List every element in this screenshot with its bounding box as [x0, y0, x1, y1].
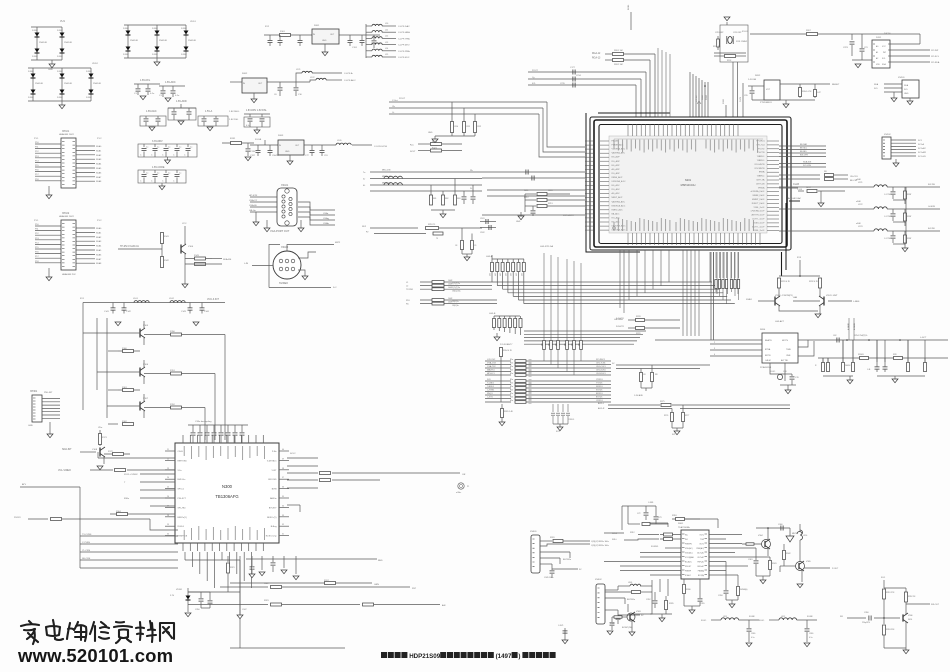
svg-text:5v: 5v [363, 179, 366, 181]
svg-text:R2m: R2m [510, 393, 514, 395]
svg-text:C142: C142 [126, 311, 132, 313]
differential pair V201/V202 [746, 257, 860, 318]
connector XS201 [874, 77, 919, 105]
svg-text:R30x: R30x [124, 498, 130, 500]
svg-text:VGAb: VGAb [323, 222, 330, 225]
svg-text:C-LPF-HRA: C-LPF-HRA [398, 31, 410, 34]
svg-text:R11: R11 [467, 126, 471, 128]
svg-text:L122: L122 [310, 77, 315, 79]
svg-text:R336: R336 [686, 589, 691, 591]
svg-text:R323: R323 [264, 600, 269, 602]
svg-text:C-LPF-PRA: C-LPF-PRA [398, 50, 410, 53]
svg-text:BNDRDA_ADC: BNDRDA_ADC [612, 204, 626, 207]
svg-text:GND: GND [428, 132, 433, 134]
svg-text:Y-IXT: Y-IXT [271, 470, 277, 472]
svg-text:R2m: R2m [510, 379, 514, 381]
svg-text:D1N4: D1N4 [57, 71, 63, 73]
svg-text:R218 75: R218 75 [428, 224, 435, 226]
svg-text:R254 254(R)%: R254 254(R)% [854, 335, 867, 337]
svg-text:SDA2: SDA2 [96, 236, 102, 239]
svg-text:RNQ1: RNQ1 [487, 393, 493, 395]
caption title text [381, 652, 556, 660]
svg-text:RXMPcnB: RXMPcnB [178, 536, 188, 538]
svg-text:SC1: SC1 [918, 140, 923, 142]
svg-text:LHF-B: LHF-B [489, 313, 496, 315]
svg-text:N103: N103 [278, 135, 284, 137]
svg-text:AG_ADC: AG_ADC [612, 192, 621, 195]
LC filter L311 [701, 616, 759, 647]
svg-text:4K7: 4K7 [579, 343, 581, 346]
svg-text:BLPDFln: BLPDFln [627, 599, 635, 601]
svg-text:3V: 3V [579, 569, 582, 571]
IC N201 top pin stubs [628, 124, 738, 136]
svg-text:SD2: SD2 [362, 226, 367, 228]
pull-up resistors on bus [542, 253, 583, 375]
svg-text:C-LPF-A: C-LPF-A [344, 72, 353, 75]
svg-text:Cr: Cr [392, 111, 395, 114]
svg-text:SE-CRS: SE-CRS [82, 558, 91, 560]
svg-text:1N4148: 1N4148 [188, 40, 196, 42]
svg-text:RDUST: RDUST [685, 566, 692, 568]
svg-text:BRTN: BRTN [765, 355, 771, 357]
svg-text:XS202: XS202 [884, 134, 891, 136]
svg-text:SDA-IDN: SDA-IDN [803, 161, 812, 164]
svg-text:32: 32 [282, 524, 284, 526]
svg-text:P1.2: P1.2 [97, 220, 102, 222]
svg-text:VCC: VCC [182, 223, 187, 225]
svg-text:PBREF: PBREF [685, 571, 692, 573]
wire bundle above IC left [690, 72, 702, 117]
svg-text:SCLT: SCLT [410, 151, 416, 153]
svg-text:C(R)(J)YFFRe 100u: C(R)(J)YFFRe 100u [591, 545, 609, 547]
inductor bank L110-L115 [366, 23, 410, 59]
svg-text:L222: L222 [858, 204, 863, 206]
svg-text:C177: C177 [570, 67, 576, 69]
voltage regulator N102 [230, 69, 356, 103]
svg-text:C(R)(J)YFFRe 100u: C(R)(J)YFFRe 100u [591, 541, 609, 543]
svg-text:L101: L101 [133, 298, 139, 300]
audio IC output RC network [646, 535, 770, 622]
svg-text:BF-RA1: BF-RA1 [800, 143, 808, 146]
svg-text:OUTa: OUTa [699, 535, 704, 537]
svg-text:VDD(AC): VDD(AC) [685, 552, 693, 555]
svg-text:NBDP_ADP: NBDP_ADP [612, 196, 623, 199]
svg-text:39: 39 [282, 458, 284, 460]
svg-text:TOW: TOW [700, 539, 704, 541]
svg-text:CLKM: CLKM [740, 97, 742, 102]
svg-text:C-LPF-4DC: C-LPF-4DC [398, 57, 410, 59]
svg-text:R322: R322 [264, 583, 269, 585]
svg-text:SDA7: SDA7 [96, 258, 102, 261]
svg-text:R331: R331 [550, 537, 555, 539]
wire bundle IC bottom fanout corners [629, 250, 669, 300]
svg-text:FV-1: FV-1 [881, 577, 886, 579]
svg-text:D1N4: D1N4 [181, 28, 187, 30]
svg-text:aCbb.: aCbb. [456, 492, 462, 494]
audio amplifier N301 [604, 523, 709, 579]
IC N201 left pin labels [612, 140, 627, 232]
svg-text:C-B: C-B [783, 371, 787, 373]
svg-text:4: 4 [714, 354, 715, 356]
svg-text:V306: V306 [908, 615, 912, 617]
connector XS301 [530, 531, 609, 579]
svg-text:22: 22 [167, 458, 169, 460]
svg-text:XP102: XP102 [62, 212, 70, 215]
svg-text:PDATE_ADC: PDATE_ADC [612, 144, 624, 147]
svg-text:D1N4: D1N4 [32, 56, 38, 58]
IC N201 top pin labels [614, 139, 763, 153]
power rail VCC-3.3V filter [80, 298, 225, 326]
svg-text:D1N4: D1N4 [123, 28, 129, 30]
svg-text:L14: L14 [385, 48, 388, 50]
svg-text:V-bSYBen: V-bSYBen [267, 460, 277, 462]
svg-text:N201: N201 [685, 178, 692, 182]
svg-text:R12: R12 [478, 126, 483, 128]
IC N300 TB1306AFG [165, 435, 289, 551]
svg-text:I2C-WP: I2C-WP [931, 50, 939, 52]
svg-text:IFV-LAVTB: IFV-LAVTB [755, 163, 766, 166]
svg-text:BW-CFR: BW-CFR [800, 155, 809, 157]
svg-text:D1N4: D1N4 [32, 30, 38, 32]
svg-text:R2m: R2m [510, 363, 514, 365]
svg-text:IFV-TAVTB: IFV-TAVTB [755, 167, 765, 170]
diode array VD105-VD110 [123, 21, 197, 66]
svg-text:TP-RS CVLLB-Cin: TP-RS CVLLB-Cin [120, 246, 140, 248]
svg-text:XS201: XS201 [898, 77, 905, 79]
svg-text:VGAr: VGAr [323, 212, 329, 215]
voltage regulator N101 [264, 25, 382, 56]
svg-text:C-FB1: C-FB1 [648, 502, 653, 504]
svg-text:C: C [162, 181, 164, 183]
svg-text:C91: C91 [324, 155, 329, 157]
svg-text:FV1: FV1 [556, 431, 561, 433]
svg-text:1.8V-DELL: 1.8V-DELL [229, 111, 240, 113]
svg-text:100R: 100R [448, 283, 453, 285]
svg-text:R2m: R2m [510, 373, 514, 375]
resistor R131 with cap C130 [222, 138, 256, 161]
svg-text:CLLB: CLLB [793, 183, 799, 186]
svg-text:XS302: XS302 [595, 579, 602, 581]
transistor V108 and VCL-VIDEO line [58, 427, 178, 472]
svg-text:D1N4: D1N4 [152, 54, 158, 56]
svg-text:C390: C390 [864, 612, 869, 614]
svg-text:LAB: LAB [793, 296, 798, 299]
svg-text:BG_ADP: BG_ADP [612, 164, 621, 167]
transistor stage V104 [118, 223, 232, 288]
svg-text:IFV-PTB: IFV-PTB [757, 152, 765, 154]
svg-text:(1497: (1497 [496, 653, 512, 660]
watermark url www.520101.com [17, 645, 173, 666]
connector XP102 [34, 212, 102, 281]
svg-text:37: 37 [282, 477, 284, 479]
svg-text:RG_ADP: RG_ADP [612, 160, 621, 163]
svg-text:.1u: .1u [157, 173, 160, 175]
svg-text:R229: R229 [636, 333, 641, 335]
svg-text:ONB: ONB [786, 355, 791, 357]
svg-text:YDBL_DvLF: YDBL_DvLF [753, 207, 765, 209]
svg-text:HEADER 20X2: HEADER 20X2 [59, 133, 75, 136]
svg-text:R342: R342 [786, 553, 791, 555]
svg-text:1.5V-A: 1.5V-A [205, 110, 213, 113]
svg-text:VGA-CS3: VGA-CS3 [487, 362, 497, 365]
svg-text:N301: N301 [678, 523, 684, 525]
svg-text:D1N4: D1N4 [57, 56, 63, 58]
svg-text:220p/2KV: 220p/2KV [862, 622, 871, 624]
svg-text:4K7: 4K7 [511, 273, 513, 276]
capacitor bank row 1.8V-CORE [138, 166, 186, 190]
svg-text:SCL-IDN: SCL-IDN [803, 165, 812, 167]
svg-text:R61: R61 [433, 198, 436, 200]
svg-text:BRXD1: BRXD1 [596, 393, 604, 395]
svg-text:TDA7266SA: TDA7266SA [678, 526, 690, 529]
svg-text:YL-CRS: YL-CRS [82, 550, 91, 552]
svg-text:R2m: R2m [510, 386, 514, 388]
svg-text:FV-BF: FV-BF [807, 616, 813, 618]
svg-text:SCL: SCL [874, 88, 879, 90]
svg-text:C332-5: C332-5 [568, 419, 574, 421]
svg-text:BKFYn(Y): BKFYn(Y) [267, 517, 277, 519]
svg-text:SDA: SDA [874, 83, 879, 86]
capacitor pair C110/C111 (1.8V ADC) [159, 81, 185, 102]
svg-text:40: 40 [282, 449, 284, 451]
svg-text:GND: GND [904, 93, 909, 95]
svg-text:GND: GND [322, 40, 327, 42]
svg-text:UFDDRA_A DC: UFDDRA_A DC [612, 180, 627, 183]
svg-text:.1u: .1u [179, 147, 182, 149]
svg-text:1N4148: 1N4148 [64, 42, 72, 44]
svg-text:S-C: S-C [333, 287, 337, 289]
svg-text:4K7: 4K7 [495, 273, 497, 276]
svg-text:R2m: R2m [510, 366, 514, 368]
svg-text:C-LPF-4EO: C-LPF-4EO [398, 45, 410, 47]
svg-text:VDD1: VDD1 [190, 21, 197, 23]
svg-text:V304: V304 [758, 535, 764, 537]
svg-text:MP-EC1: MP-EC1 [487, 373, 495, 375]
svg-text:R201 1M: R201 1M [713, 46, 721, 48]
svg-text:R2m: R2m [510, 383, 514, 385]
svg-text:FV1: FV1 [672, 434, 675, 436]
svg-text:RGB2: RGB2 [706, 95, 708, 100]
resistors R228/R229 [616, 316, 680, 335]
capacitor pair 1.8V-DRV [244, 110, 270, 134]
svg-text:SDA6: SDA6 [96, 253, 102, 256]
svg-text:C-LPF-DAC: C-LPF-DAC [398, 25, 410, 28]
svg-text:1.8V-DRV 1.8V-DSL: 1.8V-DRV 1.8V-DSL [246, 110, 267, 112]
svg-text:PBM(A): PBM(A) [698, 570, 705, 573]
svg-text:XP101: XP101 [62, 130, 70, 133]
svg-text:0.1u: 0.1u [150, 93, 155, 95]
svg-text:VGA-BL: VGA-BL [249, 204, 258, 207]
svg-text:R204 4.7K: R204 4.7K [802, 91, 812, 93]
svg-text:uF&F: uF&F [856, 179, 862, 181]
svg-text:GND: GND [516, 221, 521, 223]
svg-text:V305: V305 [806, 561, 812, 563]
svg-text:CB(J)3a: CB(J)3a [452, 305, 459, 307]
svg-text:C: C [151, 181, 153, 183]
svg-text:RGB1: RGB1 [628, 4, 630, 10]
svg-text:4K7: 4K7 [565, 343, 567, 346]
svg-text:RG_ADP: RG_ADP [612, 172, 621, 175]
svg-text:CBYT-DB: CBYT-DB [756, 183, 765, 185]
pull-down resistors on Y/Cb/Cr [428, 102, 482, 143]
svg-text:BVE Kin: BVE Kin [178, 479, 187, 481]
svg-text:C21: C21 [864, 47, 869, 49]
svg-text:R2W: R2W [907, 216, 911, 218]
svg-text:C: C [173, 155, 175, 157]
svg-text:R28: R28 [893, 354, 896, 356]
svg-text:R277: R277 [685, 415, 689, 417]
svg-text:RBNE_ADP: RBNE_ADP [612, 176, 623, 179]
svg-text:FV-IO: FV-IO [770, 371, 776, 373]
svg-text:BA_ADC: BA_ADC [612, 212, 621, 215]
svg-text:100R: 100R [448, 280, 453, 282]
svg-text:R2m: R2m [510, 390, 514, 392]
resistor bank RP-B with fanout [489, 313, 646, 344]
svg-text:FV-BF: FV-BF [749, 616, 755, 618]
svg-text:MMBF_DbLF: MMBF_DbLF [753, 195, 766, 197]
PI-RXX input row [14, 517, 178, 530]
svg-text:R232 4.7K: R232 4.7K [809, 281, 819, 283]
svg-text:BG_ADC: BG_ADC [612, 221, 621, 224]
svg-text:BUYTL_DvLF: BUYTL_DvLF [752, 226, 765, 228]
svg-text:C9: C9 [474, 245, 476, 247]
svg-text:INa: INa [685, 535, 688, 537]
svg-text:R352 2K: R352 2K [908, 596, 916, 598]
IC N201 right pin labels [750, 141, 765, 233]
svg-text:AG LHF DAC: AG LHF DAC [788, 197, 802, 200]
resistors RGA-12/13 [592, 50, 655, 117]
svg-text:C214: C214 [576, 75, 582, 77]
svg-text:.1u: .1u [146, 147, 149, 149]
svg-text:C(Y)(T)3a: C(Y)(T)3a [452, 287, 460, 289]
svg-text:SSBO: SSBO [746, 299, 752, 301]
svg-text:P1.1: P1.1 [34, 220, 39, 222]
svg-text:4K7: 4K7 [542, 343, 544, 346]
svg-text:C141: C141 [104, 311, 110, 313]
IC N201 left pin stubs [585, 141, 609, 230]
svg-text:R-DGTR: R-DGTR [616, 326, 624, 328]
svg-text:C137: C137 [250, 155, 256, 157]
svg-text:BC847(JW): BC847(JW) [622, 627, 633, 629]
connector XS101 DB9 VGA [249, 184, 335, 233]
svg-text:VCL-VIDEO: VCL-VIDEO [58, 469, 71, 472]
svg-text:T-BSD1: T-BSD1 [487, 386, 495, 388]
svg-text:C: C [140, 181, 142, 183]
svg-text:RST: RST [412, 588, 417, 590]
svg-text:CE1-TLN1: CE1-TLN1 [596, 363, 606, 365]
svg-text:C47: C47 [817, 92, 822, 94]
svg-text:36: 36 [282, 487, 284, 489]
svg-text:R142: R142 [164, 260, 170, 262]
svg-text:P1: P1 [467, 486, 469, 488]
svg-text:SC1-A/R: SC1-A/R [918, 151, 926, 154]
watermark text 家电维修资料网 [21, 620, 174, 644]
svg-text:C8: C8 [643, 374, 645, 376]
svg-text:21: 21 [167, 449, 169, 451]
svg-text:C6: C6 [274, 94, 277, 96]
svg-text:A1: A1 [876, 51, 878, 54]
svg-text:RG_ADC: RG_ADC [612, 188, 621, 191]
svg-text:C-RTN1: C-RTN1 [487, 390, 495, 392]
svg-text:PT5246N01: PT5246N01 [760, 102, 772, 104]
svg-text:MA-RS1: MA-RS1 [487, 369, 495, 372]
svg-text:SIF-OUT: SIF-OUT [931, 604, 940, 606]
svg-text:PBREF1: PBREF1 [685, 544, 692, 546]
svg-text:SPL-Hkn: SPL-Hkn [178, 507, 187, 509]
capacitor pair C112/C113 (1.8V ADD) [168, 100, 196, 125]
svg-text:R207: R207 [806, 30, 812, 32]
svg-text:I2C-SDA: I2C-SDA [931, 61, 940, 64]
svg-text:C358: C358 [718, 595, 723, 597]
wire bundle IC bottom right [710, 252, 785, 323]
svg-text:SDA5: SDA5 [96, 167, 102, 170]
svg-text:R276: R276 [664, 415, 668, 417]
svg-text:C90/R8: C90/R8 [272, 155, 280, 157]
svg-text:I2C-REC1: I2C-REC1 [596, 359, 606, 361]
svg-text:5V: 5V [612, 363, 615, 365]
svg-text:BYCE/Y: BYCE/Y [269, 507, 277, 509]
svg-text:HEADER P02: HEADER P02 [62, 273, 76, 276]
svg-text:1N4148: 1N4148 [93, 83, 101, 85]
svg-text:C144: C144 [204, 311, 210, 313]
svg-text:C-CYW: C-CYW [884, 194, 891, 196]
svg-text:Y-CVBS: Y-CVBS [82, 542, 90, 544]
svg-text:C33x decoupling: C33x decoupling [195, 421, 212, 423]
svg-text:VGA-VY: VGA-VY [249, 199, 258, 202]
svg-text:RMED_ADC: RMED_ADC [612, 208, 624, 211]
svg-text:4K7: 4K7 [572, 343, 574, 346]
svg-text:N102: N102 [242, 73, 248, 75]
svg-text:GND: GND [48, 69, 53, 71]
svg-text:SDA8: SDA8 [96, 180, 102, 183]
svg-text:N101: N101 [314, 25, 320, 27]
svg-text:L15: L15 [385, 54, 388, 56]
svg-text:C1: C1 [159, 95, 163, 97]
svg-text:CE-CS1: CE-CS1 [850, 176, 858, 178]
svg-text:RGA-12: RGA-12 [592, 52, 601, 55]
svg-text:3: 3 [714, 348, 715, 350]
svg-text:VDD2: VDD2 [92, 63, 99, 65]
svg-text:SDA1: SDA1 [96, 149, 102, 152]
svg-text:R351 27K: R351 27K [886, 592, 895, 594]
svg-text:BD-ADC: BD-ADC [685, 561, 693, 564]
svg-text:MBL-1mB: MBL-1mB [382, 170, 391, 172]
series resistor bank below IC [715, 252, 740, 304]
svg-text:GB-Gn: GB-Gn [249, 210, 257, 212]
svg-text:SCL2: SCL2 [290, 453, 296, 455]
svg-text:BG_ADC: BG_ADC [612, 184, 621, 187]
wires POUT/Cy with caps into IC top [528, 67, 646, 117]
svg-text:1-3V-AUD: 1-3V-AUD [634, 394, 644, 397]
svg-text:.1u: .1u [157, 147, 160, 149]
svg-text:4K7: 4K7 [556, 343, 558, 346]
svg-text:C95: C95 [744, 95, 749, 97]
svg-text:R-13W: R-13W [928, 184, 936, 186]
svg-text:1N4148: 1N4148 [130, 40, 138, 42]
svg-text:VGAg: VGAg [323, 217, 330, 220]
svg-text:FV-BVD: FV-BVD [651, 546, 659, 548]
svg-text:R341: R341 [772, 563, 777, 565]
svg-text:33: 33 [282, 515, 284, 517]
svg-text:R2m: R2m [510, 400, 514, 402]
svg-text:1.8V-DAC: 1.8V-DAC [146, 110, 157, 113]
svg-text:RLKk3: RLKk3 [178, 526, 185, 528]
svg-text:RUBYT_DbLF: RUBYT_DbLF [752, 203, 766, 205]
svg-text:R353 22K: R353 22K [886, 629, 895, 631]
svg-text:R: R [815, 365, 817, 367]
capacitor row above N300 [188, 421, 248, 443]
svg-text:1N4148: 1N4148 [159, 40, 167, 42]
